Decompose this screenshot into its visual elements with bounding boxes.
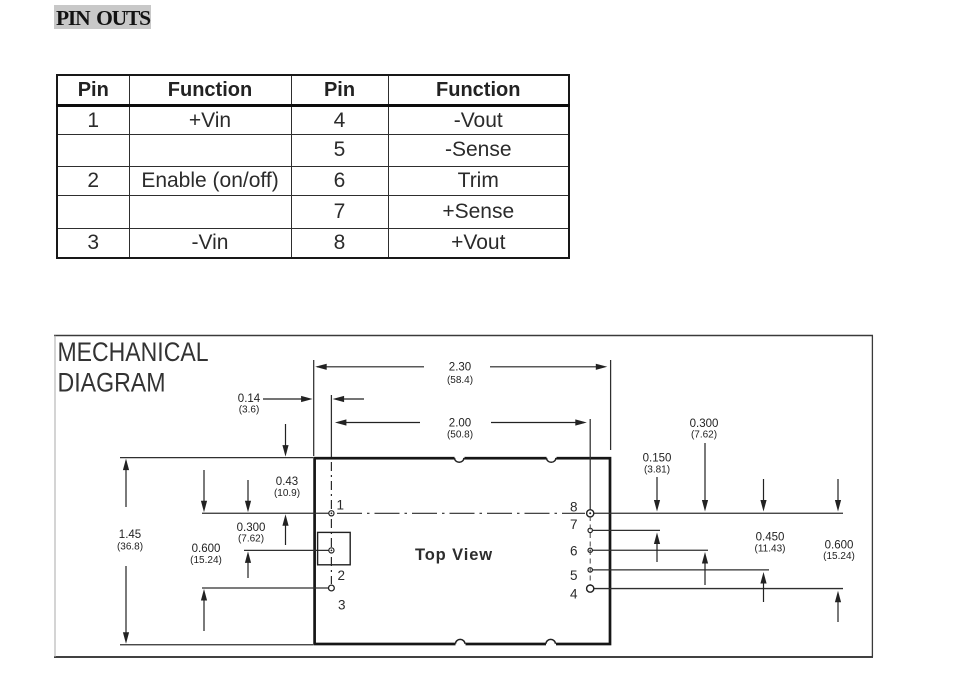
notch top left <box>455 456 465 462</box>
pin 5 <box>588 568 592 572</box>
svg-text:2: 2 <box>338 568 346 583</box>
dim 1.45 (36.8) left <box>117 459 143 644</box>
svg-text:6: 6 <box>570 544 578 559</box>
dim 0.600 (15.24) left <box>190 470 222 631</box>
svg-text:2.30: 2.30 <box>449 362 471 374</box>
svg-text:3: 3 <box>338 598 346 613</box>
notch bottom left <box>456 639 466 645</box>
dim 0.43 (10.9) left <box>274 424 300 545</box>
svg-text:0.300: 0.300 <box>690 418 719 430</box>
enable pin square <box>318 532 351 564</box>
pin row lines, right side <box>592 513 843 588</box>
svg-text:(15.24): (15.24) <box>823 551 855 562</box>
pin function table <box>56 74 570 259</box>
svg-text:Top View: Top View <box>415 546 493 564</box>
dim 0.450 (11.43) right <box>755 479 786 602</box>
ext line pin3 row, left <box>202 587 329 589</box>
svg-text:8: 8 <box>570 500 578 515</box>
ext line 0.14 pin column vertical <box>330 395 332 457</box>
title MECHANICAL DIAGRAM <box>58 337 209 398</box>
pin 8 <box>587 510 594 517</box>
ext line package bottom, left <box>120 644 313 646</box>
dim 2.30 (58.4) top <box>315 362 607 387</box>
svg-text:(10.9): (10.9) <box>274 488 300 499</box>
pin column connector line pins 4-8 <box>589 516 591 586</box>
notch top right <box>547 456 557 462</box>
vertical centerline through pins 1,2,3 (dash-dot) <box>330 462 332 584</box>
package outline Top View <box>315 458 610 644</box>
ext line 2.30 left vertical <box>313 360 315 456</box>
pin 3 <box>329 585 335 591</box>
pin 7 <box>588 528 592 532</box>
enable pin <box>329 548 334 553</box>
dim 0.300 (7.62) left <box>237 480 266 578</box>
dim 0.300 (7.62) right top <box>690 418 719 585</box>
svg-text:2.00: 2.00 <box>449 418 471 430</box>
svg-text:0.600: 0.600 <box>192 543 221 555</box>
svg-text:(15.24): (15.24) <box>190 555 222 566</box>
ext line 2.30 right vertical <box>610 360 612 450</box>
svg-text:(36.8): (36.8) <box>117 542 143 553</box>
heading PIN OUTS <box>54 5 151 29</box>
dim 0.600 (15.24) right <box>823 479 855 622</box>
pin 1 <box>329 511 334 516</box>
svg-text:7: 7 <box>570 517 578 532</box>
pin 4 <box>587 585 594 592</box>
ext line 2.00 right / pin8 column vertical <box>589 419 591 510</box>
svg-text:(50.8): (50.8) <box>447 430 473 441</box>
svg-text:(3.6): (3.6) <box>239 405 260 416</box>
pin 6 <box>588 548 592 552</box>
svg-text:4: 4 <box>570 587 578 602</box>
dim 0.14 (3.6) <box>238 393 364 416</box>
svg-text:1: 1 <box>337 498 345 513</box>
svg-text:0.14: 0.14 <box>238 393 261 405</box>
dim 0.150 (3.81) right <box>643 453 672 563</box>
ext line package top, left <box>120 457 313 459</box>
svg-text:0.300: 0.300 <box>237 522 266 534</box>
svg-text:0.600: 0.600 <box>825 540 854 552</box>
svg-text:0.150: 0.150 <box>643 453 672 465</box>
frame around mechanical diagram <box>54 336 873 658</box>
svg-text:MECHANICAL: MECHANICAL <box>58 337 209 367</box>
svg-text:0.43: 0.43 <box>276 476 298 488</box>
pin5 row line right <box>592 569 769 571</box>
svg-text:1.45: 1.45 <box>119 529 141 541</box>
pin7 row line right <box>593 529 660 531</box>
ext line enable row, left <box>244 549 329 551</box>
notch bottom right <box>546 639 556 645</box>
centerline pin1 to pin8 (dash-dot) <box>337 512 585 514</box>
pin8 row line right <box>594 512 843 514</box>
svg-text:(7.62): (7.62) <box>238 534 264 545</box>
pin4 row line right <box>594 588 843 590</box>
dim 2.00 (50.8) <box>335 418 587 441</box>
svg-text:5: 5 <box>570 568 578 583</box>
svg-text:DIAGRAM: DIAGRAM <box>58 368 166 398</box>
svg-text:0.450: 0.450 <box>756 532 785 544</box>
ext line pin1 row, left <box>202 512 329 514</box>
svg-text:(11.43): (11.43) <box>755 544 786 555</box>
svg-text:(7.62): (7.62) <box>691 430 717 441</box>
svg-text:(58.4): (58.4) <box>447 375 473 386</box>
pin6 row line right <box>592 549 708 551</box>
extension lines, left side <box>120 360 611 645</box>
svg-text:(3.81): (3.81) <box>644 465 670 476</box>
